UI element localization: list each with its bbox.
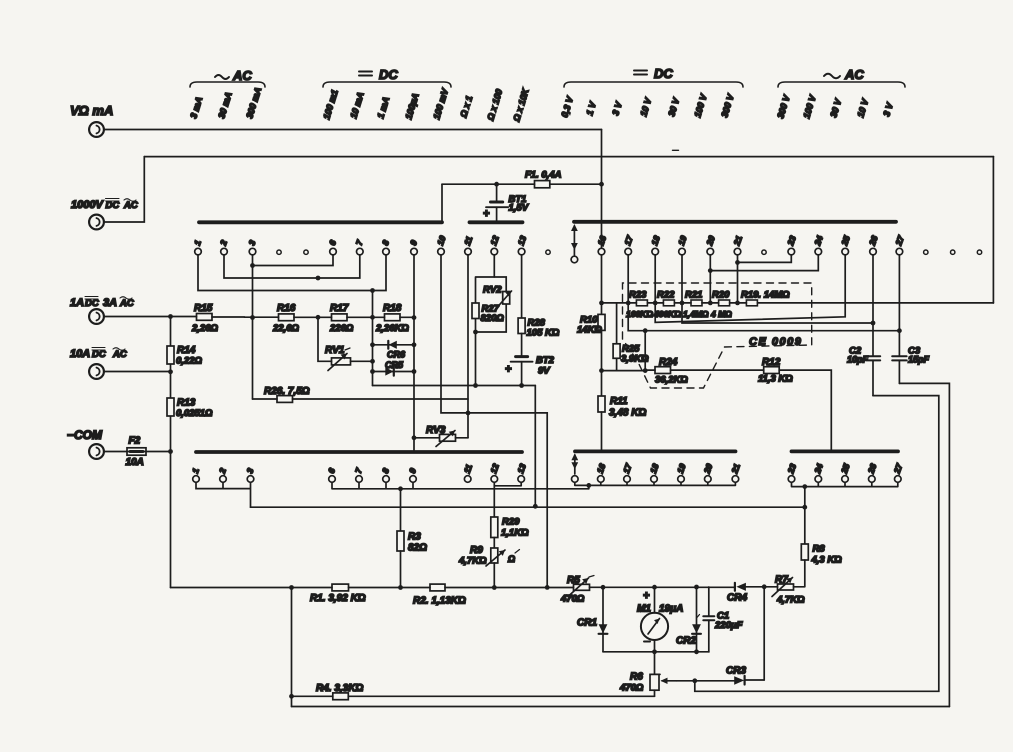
svg-text:DC: DC xyxy=(379,67,398,82)
svg-text:CR4: CR4 xyxy=(727,593,747,604)
wiper arrow row 1 xyxy=(571,224,578,263)
junction R4 row start xyxy=(289,694,294,699)
svg-text:9: 9 xyxy=(408,239,419,247)
trimmer R7 4.7KΩ xyxy=(772,575,805,606)
svg-text:100μA: 100μA xyxy=(403,92,420,121)
wire contact18 row1 to contact25 (wire C) xyxy=(655,255,845,322)
switch group label DC volts xyxy=(564,66,743,87)
bottom loop wire to C3 return xyxy=(292,706,950,708)
trimmer RV2 xyxy=(483,285,512,308)
capacitor C3 15pF xyxy=(892,346,929,384)
resistor R13 0.0251Ω xyxy=(167,398,213,420)
switch group label DC current xyxy=(323,67,451,87)
svg-text:100 V: 100 V xyxy=(692,92,709,118)
resistor R18 2.26KΩ xyxy=(375,303,414,334)
svg-text:15pF: 15pF xyxy=(908,355,930,365)
svg-text:17: 17 xyxy=(622,233,635,247)
wire 1A jack to resistor row xyxy=(104,316,196,318)
jack 1000V xyxy=(71,199,138,230)
junction R1 row left riser xyxy=(289,585,294,590)
svg-text:BT2: BT2 xyxy=(536,355,555,366)
wire R1 row left riser and R4 loop xyxy=(291,588,293,707)
HV chain line A xyxy=(602,302,994,304)
svg-text:R12: R12 xyxy=(762,357,781,368)
svg-text:300 V: 300 V xyxy=(719,92,736,118)
svg-text:VΩ mA: VΩ mA xyxy=(70,103,113,118)
wire tie riser xyxy=(588,485,590,488)
svg-text:11,3 KΩ: 11,3 KΩ xyxy=(758,374,793,385)
svg-text:1,4MΩ: 1,4MΩ xyxy=(683,309,709,319)
svg-text:CR2: CR2 xyxy=(676,636,696,647)
svg-text:100 mV: 100 mV xyxy=(431,87,450,121)
wire R25 branch xyxy=(616,303,618,344)
svg-text:8: 8 xyxy=(380,467,391,475)
svg-text:1,5V: 1,5V xyxy=(509,203,529,214)
svg-text:+: + xyxy=(643,590,650,602)
svg-text:R9: R9 xyxy=(470,545,483,556)
svg-text:1: 1 xyxy=(190,467,201,475)
svg-text:R3: R3 xyxy=(408,532,421,543)
junction c19 on A-line xyxy=(680,301,685,306)
diode CR5 xyxy=(373,360,415,376)
svg-text:Ω x 10K: Ω x 10K xyxy=(511,86,531,123)
junction R24 riser on c17 wire xyxy=(643,328,648,333)
svg-text:Ω x 100: Ω x 100 xyxy=(485,88,504,123)
contact 18 row2 xyxy=(648,462,661,482)
resistor R22 400KΩ xyxy=(653,290,681,320)
meter M1 19µA xyxy=(637,587,683,674)
svg-text:3 V: 3 V xyxy=(881,101,895,118)
junction CR2 on tie xyxy=(694,649,699,654)
svg-text:R24: R24 xyxy=(659,357,678,368)
svg-text:R7: R7 xyxy=(775,575,788,586)
svg-text:10A: 10A xyxy=(126,457,144,468)
wiper arrow row 2 xyxy=(571,453,578,482)
resistor R26 7.5Ω xyxy=(253,386,469,402)
wire contact19 row1 to C2 top (wire B) xyxy=(682,255,873,323)
svg-text:400KΩ: 400KΩ xyxy=(653,309,681,319)
svg-text:160KΩ: 160KΩ xyxy=(626,309,653,319)
svg-text:R29: R29 xyxy=(502,517,520,528)
junction CR5 left xyxy=(370,369,375,374)
svg-text:2: 2 xyxy=(217,467,228,476)
resistor R3 82Ω xyxy=(397,489,427,588)
svg-text:−COM: −COM xyxy=(67,428,103,442)
bus bar 3 (row2 contacts 1-13) xyxy=(196,450,522,454)
wire 1000V top rail xyxy=(144,156,993,158)
contact 2 row1 xyxy=(218,239,229,255)
svg-text:10 V: 10 V xyxy=(638,96,653,118)
bus bar 1 (contacts 1-13) xyxy=(199,220,442,224)
contact 6 row1 xyxy=(327,239,338,255)
contact 9 row1 xyxy=(408,239,419,255)
svg-text:DC: DC xyxy=(92,349,106,360)
wire row2 contacts 12-13 tie xyxy=(494,482,521,486)
contact 10 row1 xyxy=(435,234,448,255)
svg-text:19: 19 xyxy=(676,234,689,247)
junction R3 bottom on row xyxy=(398,585,403,590)
trimmer RV3 xyxy=(414,425,468,447)
svg-text:4,7KΩ: 4,7KΩ xyxy=(776,595,805,606)
svg-text:27: 27 xyxy=(893,233,906,247)
svg-text:3 mA: 3 mA xyxy=(188,96,204,120)
svg-text:820Ω: 820Ω xyxy=(481,313,505,324)
svg-text:8: 8 xyxy=(380,239,391,247)
svg-text:12: 12 xyxy=(488,234,501,247)
contact 23 row1 xyxy=(785,234,798,255)
svg-text:23: 23 xyxy=(785,234,798,248)
svg-text:F1. 0,4A: F1. 0,4A xyxy=(525,170,562,181)
svg-text:CE 0009: CE 0009 xyxy=(749,336,802,348)
wire resistor row R15-R16 xyxy=(245,316,279,318)
svg-text:24: 24 xyxy=(812,234,825,248)
junction COM on rail xyxy=(168,449,173,454)
junction resistor row end on c9 column xyxy=(412,315,417,320)
junction RV1 riser on resistor row xyxy=(316,315,321,320)
resistor R21 1.4MΩ xyxy=(683,290,709,320)
contact 18 row1 xyxy=(649,234,662,255)
contact 21 row2 xyxy=(729,462,742,482)
junction RV1 right on CR rail xyxy=(370,359,375,364)
contact 13 row2 xyxy=(515,462,528,482)
svg-text:10 V: 10 V xyxy=(855,97,870,119)
junction R24 left xyxy=(643,368,648,373)
svg-text:30 V: 30 V xyxy=(666,96,681,118)
diode CR3 xyxy=(695,666,764,685)
svg-text:26: 26 xyxy=(867,234,880,248)
svg-text:11: 11 xyxy=(462,463,475,475)
wire VΩmA jack to node 16 column xyxy=(104,129,601,131)
svg-text:R5: R5 xyxy=(567,575,580,586)
potentiometer R6 470Ω xyxy=(619,672,695,697)
svg-text:3A: 3A xyxy=(103,297,117,309)
svg-text:CR5: CR5 xyxy=(385,360,404,370)
svg-text:100 m1: 100 m1 xyxy=(321,88,339,120)
contact 8 row2 xyxy=(380,467,391,483)
svg-text:470Ω: 470Ω xyxy=(560,594,585,605)
svg-text:16: 16 xyxy=(595,462,608,475)
svg-text:4,7KΩ: 4,7KΩ xyxy=(458,556,487,567)
svg-text:DC: DC xyxy=(106,200,120,211)
svg-text:+: + xyxy=(505,364,512,376)
CR rail left column xyxy=(372,291,374,386)
junction CR1 on row xyxy=(601,585,606,590)
junction R16-R17 riser on c2 wire xyxy=(316,276,321,281)
trimmer R5 470Ω xyxy=(560,575,594,605)
dashed CE 0009 outline xyxy=(623,283,812,388)
junction c21 on A-line xyxy=(735,301,740,306)
svg-text:300 V: 300 V xyxy=(775,93,792,119)
svg-text:DC: DC xyxy=(654,66,673,81)
svg-text:+: + xyxy=(483,208,490,220)
contact 26 row1 xyxy=(867,234,880,255)
resistor R16 22.6Ω xyxy=(272,303,332,334)
contact dot row1 xyxy=(977,250,981,254)
R27 / RV2 parallel loop xyxy=(476,277,507,332)
contact 3 row2 xyxy=(244,467,255,483)
contact dot row1 xyxy=(304,250,308,254)
wire R25 bottom link xyxy=(602,370,646,372)
svg-text:R22: R22 xyxy=(657,290,675,301)
contact 27 row2 xyxy=(891,461,904,482)
contact 19 row1 xyxy=(676,234,689,255)
svg-text:Ω: Ω xyxy=(507,554,515,564)
junction tie to wiper tie riser xyxy=(586,483,591,488)
capacitor C1 220pF xyxy=(703,587,742,652)
svg-text:25: 25 xyxy=(839,462,852,476)
svg-text:R4. 3,3KΩ: R4. 3,3KΩ xyxy=(316,683,363,694)
resistor R1 3.92KΩ xyxy=(310,584,366,604)
bus bar 4 (row2 contacts 16-21) xyxy=(575,449,736,453)
svg-text:0,0251Ω: 0,0251Ω xyxy=(176,408,213,419)
junction CR3 riser on row xyxy=(762,584,767,589)
junction c18 on A-line xyxy=(653,301,658,306)
wire loop bottom to CR rail wire xyxy=(475,332,477,386)
wire row2 contacts 1-3 tie xyxy=(196,482,251,507)
contact 6 row2 xyxy=(326,467,337,483)
junction CR rail left on resistor row xyxy=(370,315,375,320)
svg-text:22,6Ω: 22,6Ω xyxy=(272,323,299,334)
svg-text:R11: R11 xyxy=(610,396,628,407)
contact 26 row2 xyxy=(865,462,878,482)
svg-text:R14: R14 xyxy=(177,345,196,356)
CR rail right column is contact9 column xyxy=(413,255,415,450)
svg-text:19: 19 xyxy=(675,462,688,475)
resistor R10 14KΩ xyxy=(577,314,605,335)
svg-text:10A: 10A xyxy=(70,348,90,360)
svg-text:1A: 1A xyxy=(70,297,84,309)
resistor R24 36.2KΩ xyxy=(645,357,764,386)
contact 20 row1 xyxy=(704,234,717,255)
svg-text:13: 13 xyxy=(516,234,529,247)
junction wire D on c27 column xyxy=(897,328,902,333)
resistor R4 3.3KΩ xyxy=(292,683,655,700)
junction c6 wire on c3 column xyxy=(250,263,255,268)
svg-text:1000V: 1000V xyxy=(71,199,104,211)
svg-text:17: 17 xyxy=(621,461,634,475)
contact 21 row1 xyxy=(731,234,744,255)
junction RV3 left on c9 column xyxy=(412,435,417,440)
wire contact11 row1 column xyxy=(467,255,469,438)
junction c20 on A-line xyxy=(708,301,713,306)
svg-text:1 V: 1 V xyxy=(584,100,598,117)
junction loop column on CR rail wire xyxy=(473,383,478,388)
svg-text:4 MΩ: 4 MΩ xyxy=(710,309,732,319)
svg-text:RV1: RV1 xyxy=(325,345,345,356)
svg-text:3 V: 3 V xyxy=(610,100,624,117)
svg-text:CR1: CR1 xyxy=(577,618,597,629)
svg-text:25: 25 xyxy=(839,234,852,248)
junction E wire on R8 riser xyxy=(802,505,807,510)
contact 24 row2 xyxy=(812,462,825,482)
junction R6 wire CR3 C2return xyxy=(692,678,697,683)
wire row2 wiper tie 16-21 xyxy=(575,482,736,485)
svg-text:1 mA: 1 mA xyxy=(375,96,391,120)
svg-text:14KΩ: 14KΩ xyxy=(577,325,602,336)
bus bar BT1 segment (contacts 11-13) xyxy=(470,220,523,224)
svg-text:R17: R17 xyxy=(330,303,349,314)
capacitor C2 10pF xyxy=(847,346,880,396)
wire contact27 row1 down to C3 xyxy=(898,255,900,356)
junction c17 on A-line xyxy=(626,301,631,306)
svg-text:470Ω: 470Ω xyxy=(619,683,644,694)
junction contact11 column on c10 wire xyxy=(466,411,471,416)
wire contact10 row1 across to meter row xyxy=(441,255,547,587)
junction CR2 on row xyxy=(694,585,699,590)
svg-text:13: 13 xyxy=(515,462,528,475)
svg-text:7: 7 xyxy=(353,466,364,475)
svg-text:18: 18 xyxy=(649,234,662,247)
svg-text:105 KΩ: 105 KΩ xyxy=(527,328,560,339)
svg-text:18: 18 xyxy=(648,462,661,475)
wire contact26 row1 down to C2 xyxy=(872,255,874,356)
svg-text:82Ω: 82Ω xyxy=(408,543,427,554)
resistor R25 3.9KΩ xyxy=(613,344,649,371)
battery BT2 9V xyxy=(505,334,555,386)
contact 27 row1 xyxy=(893,233,906,255)
battery BT1 1.5V xyxy=(483,184,529,220)
svg-text:CR3: CR3 xyxy=(726,666,746,677)
jack VΩmA xyxy=(70,103,113,137)
contact 19 row2 xyxy=(675,462,688,482)
svg-text:R6: R6 xyxy=(630,672,643,683)
svg-text:9V: 9V xyxy=(538,366,550,377)
junction R14 rail top xyxy=(168,314,173,319)
junction M1 on row xyxy=(652,585,657,590)
svg-text:R16: R16 xyxy=(277,303,296,314)
fuse F2 10A xyxy=(104,436,170,469)
contact 25 row1 xyxy=(839,234,852,255)
contact dot row1 xyxy=(924,250,928,254)
jack 1A/3A xyxy=(70,297,134,324)
contact 11 row1 xyxy=(462,235,475,255)
svg-text:R26. 7,5Ω: R26. 7,5Ω xyxy=(264,386,310,397)
svg-text:30 V: 30 V xyxy=(828,97,843,119)
svg-text:30 mA: 30 mA xyxy=(216,91,233,120)
junction R25/R24 link on node16 column xyxy=(599,368,604,373)
junction R17-R18 riser on c1 wire xyxy=(370,288,375,293)
contact 25 row2 xyxy=(839,462,852,482)
contact 7 row2 xyxy=(353,466,364,483)
junction c3 column at resistor row xyxy=(250,315,255,320)
svg-text:21: 21 xyxy=(731,234,744,248)
contact 7 row1 xyxy=(354,238,365,255)
junction CR6 right xyxy=(412,342,417,347)
svg-text:19μA: 19μA xyxy=(659,604,683,615)
diode CR6 xyxy=(373,341,415,360)
wire contact6 row1 to contact3 column xyxy=(253,255,334,266)
diode CR4 xyxy=(727,583,747,604)
svg-text:RV3: RV3 xyxy=(426,425,446,436)
wire 1000V right drop to HV chain xyxy=(992,157,994,303)
svg-text:R1. 3,92 KΩ: R1. 3,92 KΩ xyxy=(310,593,366,604)
contact 16 row2 xyxy=(595,462,608,482)
svg-text:R2. 1,13KΩ: R2. 1,13KΩ xyxy=(413,596,466,607)
svg-text:R15: R15 xyxy=(194,303,213,314)
svg-text:100 V: 100 V xyxy=(801,93,818,119)
COM rail xyxy=(170,317,172,588)
wire contact17 row1 to C3 top (wire D) xyxy=(628,255,899,331)
junction c21 tie xyxy=(735,260,740,265)
svg-text:27: 27 xyxy=(891,461,904,475)
junction c10 wire on row xyxy=(545,585,550,590)
junction 10A on rail xyxy=(168,369,173,374)
junction CR5 right xyxy=(412,369,417,374)
junction c20 tie xyxy=(708,268,713,273)
resistor R17 226Ω xyxy=(329,303,385,334)
diode CR2 xyxy=(676,587,701,652)
bus bar 2 (contacts 16-27) xyxy=(574,220,896,224)
svg-text:AC: AC xyxy=(112,349,127,360)
resistor R19 14MΩ xyxy=(741,290,790,306)
junction BT2 column on c3-R8 wire xyxy=(533,504,538,509)
fuse F1 0.4A xyxy=(442,170,602,188)
svg-text:26: 26 xyxy=(865,462,878,476)
svg-text:R23: R23 xyxy=(629,290,647,301)
junction R9 bottom on row xyxy=(492,585,497,590)
svg-text:1: 1 xyxy=(192,239,203,247)
svg-text:R21: R21 xyxy=(685,290,702,301)
wire contact12 row1 down to RV2/R27 loop xyxy=(493,255,495,277)
wire contact20 row1 to contact24 xyxy=(710,255,818,303)
resistor R29 1.1KΩ xyxy=(491,486,529,548)
contact dot row1 xyxy=(951,250,955,254)
switch group label AC volts xyxy=(778,67,905,87)
svg-text:3: 3 xyxy=(246,239,257,247)
wire contact21 row1 to contact23 xyxy=(738,255,792,303)
junction F1 right / node16 column xyxy=(599,182,604,187)
junction CR6 left xyxy=(370,342,375,347)
svg-text:9: 9 xyxy=(407,467,418,475)
svg-text:R8: R8 xyxy=(813,544,826,555)
svg-text:R19. 14MΩ: R19. 14MΩ xyxy=(741,290,790,301)
wire R11 to bus bar 4 xyxy=(601,412,603,450)
svg-text:2,26Ω: 2,26Ω xyxy=(191,323,218,334)
wire contact3 row2 to R8 (E wire) xyxy=(251,506,805,508)
svg-text:2: 2 xyxy=(218,239,229,248)
svg-text:10 mA: 10 mA xyxy=(348,91,365,120)
contact 12 row2 xyxy=(488,462,501,482)
contact 17 row2 xyxy=(621,461,634,482)
junction BT2 stem on CR rail wire xyxy=(519,383,524,388)
resistor R2 1.13KΩ xyxy=(413,584,466,606)
svg-text:20: 20 xyxy=(704,234,717,248)
jack COM xyxy=(67,428,104,459)
contact 11 row2 xyxy=(462,463,475,483)
contact 23 row2 xyxy=(785,462,798,482)
svg-text:R13: R13 xyxy=(177,398,196,409)
svg-text:AC: AC xyxy=(123,200,138,211)
contact 9 row2 xyxy=(407,467,418,483)
svg-text:10: 10 xyxy=(435,234,448,247)
switch group label AC current xyxy=(190,68,265,87)
trimmer R9 4.7KΩ xyxy=(458,545,520,587)
wire contact2 row1 to contact7 xyxy=(224,255,360,278)
svg-text:220μF: 220μF xyxy=(714,620,743,631)
stray dash mark xyxy=(673,149,679,151)
resistor R15 2.26Ω xyxy=(191,303,245,334)
svg-text:3,48 KΩ: 3,48 KΩ xyxy=(609,408,646,419)
svg-text:21: 21 xyxy=(729,462,742,476)
wire C2 return to CR3 node xyxy=(695,396,939,692)
svg-text:3: 3 xyxy=(244,467,255,475)
bus bar 5 (row2 contacts 23-27) xyxy=(792,449,899,453)
svg-text:1,1KΩ: 1,1KΩ xyxy=(501,528,529,539)
resistor R23 160KΩ xyxy=(626,290,653,320)
wire bar1 right end to F1 xyxy=(441,184,443,222)
contact dot row1 xyxy=(277,250,281,254)
wire contact13 row1 down to R28 xyxy=(521,255,523,318)
